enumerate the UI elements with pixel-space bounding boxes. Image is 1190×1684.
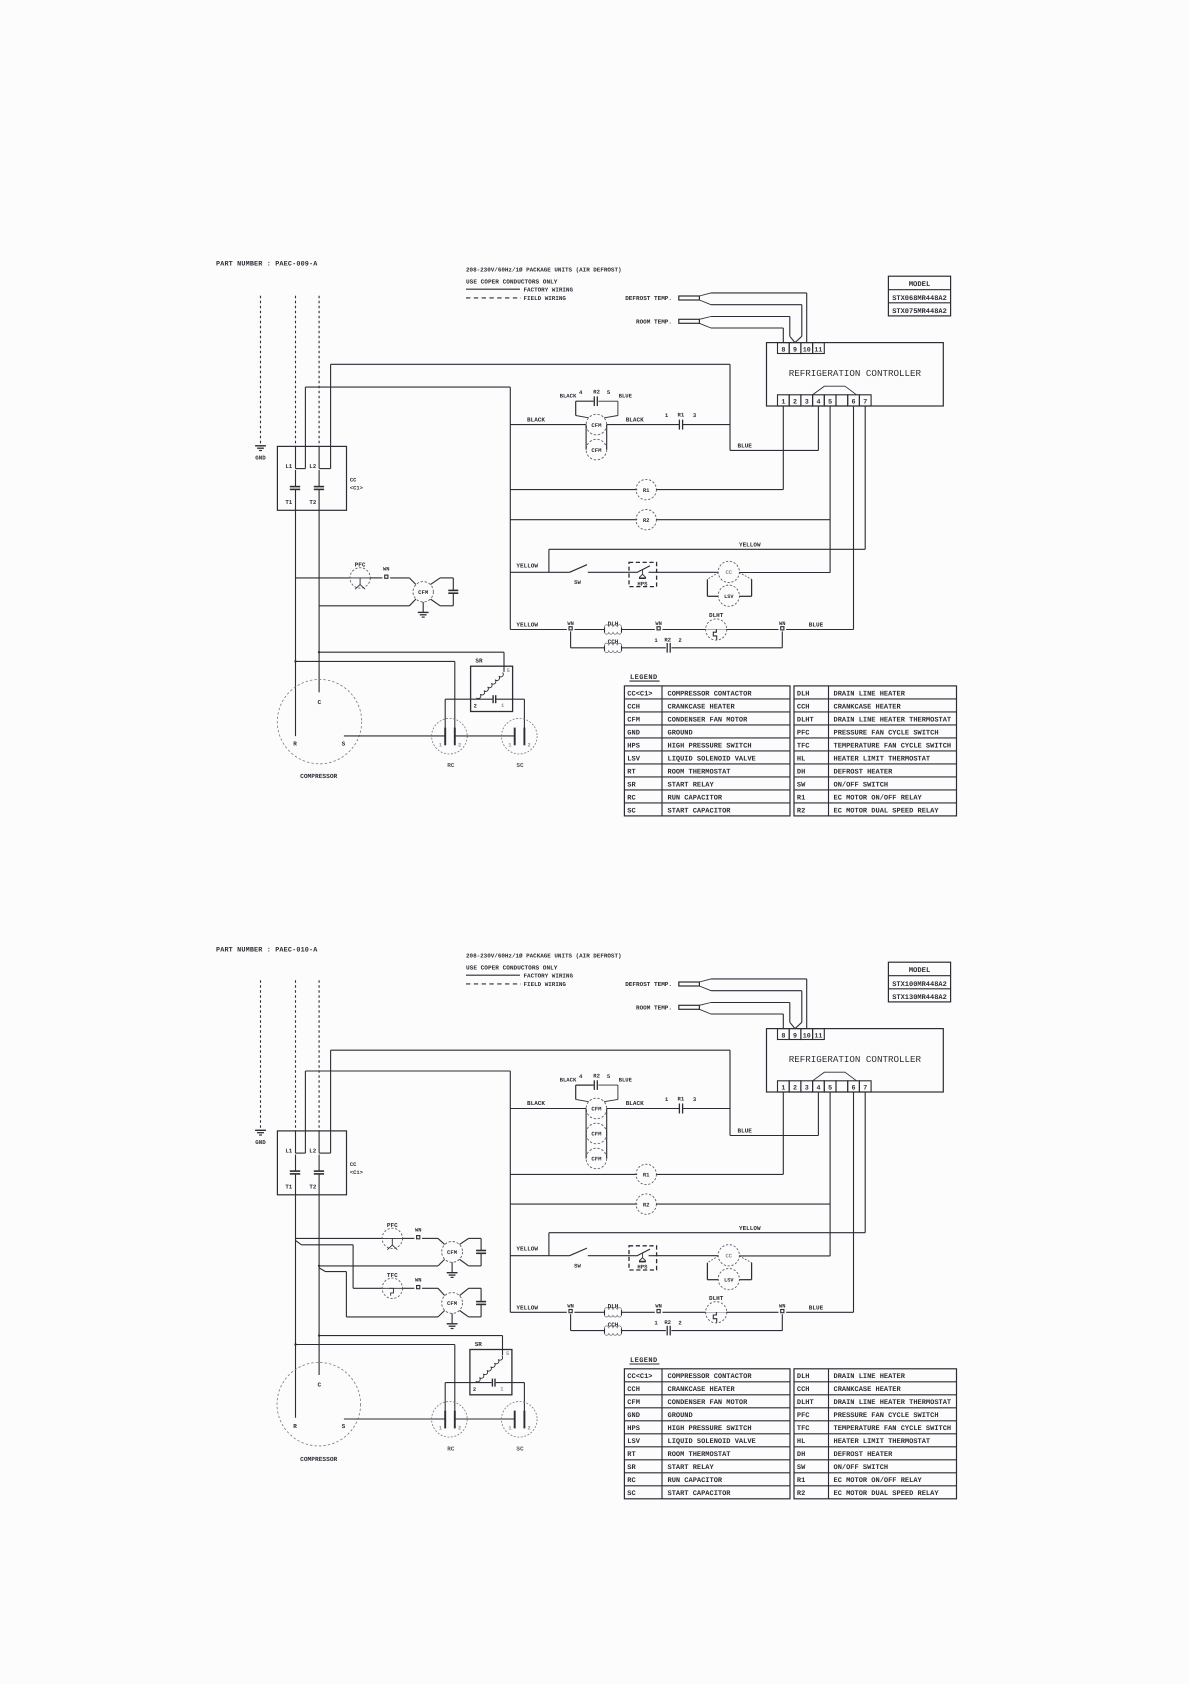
wire: contact R2 to WN3 branch [671, 1330, 782, 1332]
svg-text:USE COPER CONDUCTORS ONLY: USE COPER CONDUCTORS ONLY [466, 964, 558, 971]
run capacitor RC (2) [432, 1402, 468, 1438]
wire: CCH to contact R2 [622, 647, 666, 649]
svg-text:2: 2 [473, 1387, 476, 1393]
wire: controller terminal 1 drop to R1 [782, 406, 784, 490]
svg-text:WN: WN [779, 621, 785, 627]
wire: jog T2 to CFM2 lower row [319, 1268, 325, 1272]
svg-text:COMPRESSOR: COMPRESSOR [300, 773, 337, 780]
svg-text:START RELAY: START RELAY [668, 1464, 715, 1472]
svg-text:DRAIN LINE HEATER: DRAIN LINE HEATER [834, 690, 906, 698]
relay coil R2 (EC motor dual speed) [510, 1203, 637, 1205]
svg-text:CFM: CFM [591, 1156, 602, 1163]
wire: lower fan row from T2 [319, 605, 409, 607]
wire: room sensor to controller terminals 9/8 [699, 317, 711, 320]
svg-text:DLH: DLH [797, 1373, 810, 1381]
wire: WN1 branch down [570, 1314, 572, 1330]
contactor coil CC [718, 561, 739, 582]
svg-text:RC: RC [627, 794, 635, 802]
svg-text:BLUE: BLUE [619, 393, 633, 400]
svg-text:STX068MR448A2: STX068MR448A2 [892, 295, 947, 303]
wire: L2 top run [330, 364, 332, 468]
svg-text:R2: R2 [797, 1490, 805, 1498]
svg-text:R1: R1 [678, 1096, 685, 1103]
svg-text:9: 9 [793, 1032, 797, 1040]
wire: controller terminal 1 drop to R1 [782, 1092, 784, 1174]
svg-text:1: 1 [781, 1084, 785, 1092]
svg-text:R: R [293, 1423, 297, 1430]
relay coil R1 (EC motor on/off) [510, 1173, 637, 1175]
svg-text:1: 1 [500, 1386, 503, 1392]
svg-text:HPS: HPS [637, 580, 648, 587]
svg-text:MODEL: MODEL [909, 281, 931, 289]
wire: contact R1 to L2 drop [683, 424, 730, 426]
svg-text:T2: T2 [309, 1183, 316, 1190]
svg-text:ROOM THERMOSTAT: ROOM THERMOSTAT [668, 768, 731, 776]
svg-text:8: 8 [781, 346, 785, 354]
svg-text:TFC: TFC [797, 742, 810, 750]
svg-text:DEFROST TEMP.: DEFROST TEMP. [625, 981, 672, 988]
wire: T1 line down to compressor R (2) [295, 1174, 297, 1418]
svg-text:T2: T2 [309, 499, 316, 506]
condenser fan motor CFM 2 (2) [438, 1288, 445, 1295]
wire: L1 from contactor to bus [304, 387, 306, 469]
controller bottom terminals 1-7 [778, 395, 790, 406]
svg-text:R1: R1 [643, 1172, 650, 1179]
node WN (junction 2) [657, 627, 660, 630]
svg-text:DRAIN LINE HEATER THERMOSTAT: DRAIN LINE HEATER THERMOSTAT [834, 1399, 952, 1407]
condenser fan motors CFM stack [586, 1098, 607, 1119]
svg-text:SW: SW [797, 781, 806, 789]
field wiring feeder L1 (dashed) [295, 296, 297, 447]
svg-text:10: 10 [803, 346, 811, 354]
field wiring feeder L2 (dashed) [318, 296, 320, 447]
wire: defrost sensor to controller terminals 10/9 [699, 979, 711, 982]
svg-text:CONDENSER FAN MOTOR: CONDENSER FAN MOTOR [668, 716, 749, 724]
svg-text:MODEL: MODEL [909, 967, 931, 975]
svg-text:ROOM THERMOSTAT: ROOM THERMOSTAT [668, 1451, 731, 1459]
contactor contact L2-T2 [318, 446, 320, 468]
svg-text:3: 3 [805, 1084, 809, 1092]
svg-text:2: 2 [528, 1426, 531, 1432]
svg-text:BLUE: BLUE [809, 1305, 824, 1312]
svg-text:9: 9 [793, 346, 797, 354]
jumper hat over blank terminal [813, 386, 857, 395]
wire: T2 to start relay terminal 5 [319, 651, 504, 653]
svg-text:DLHT: DLHT [709, 1295, 724, 1302]
svg-text:R2: R2 [797, 807, 805, 815]
svg-text:GND: GND [255, 1139, 266, 1146]
svg-text:R2: R2 [593, 1073, 600, 1080]
wire: CC/LSV parallel brackets [707, 573, 718, 580]
high pressure switch HPS [629, 1246, 657, 1270]
svg-text:YELLOW: YELLOW [516, 562, 538, 569]
wire: WN2 to DLHT [662, 629, 705, 631]
svg-text:YELLOW: YELLOW [516, 1246, 538, 1253]
svg-text:DLH: DLH [797, 690, 810, 698]
svg-text:STX075MR448A2: STX075MR448A2 [892, 308, 947, 316]
svg-text:ON/OFF SWITCH: ON/OFF SWITCH [834, 1463, 889, 1472]
svg-text:HIGH PRESSURE SWITCH: HIGH PRESSURE SWITCH [668, 1425, 752, 1433]
compressor (2) [277, 1362, 361, 1446]
svg-text:DRAIN LINE HEATER THERMOSTAT: DRAIN LINE HEATER THERMOSTAT [834, 716, 952, 724]
svg-text:GROUND: GROUND [668, 729, 693, 737]
wire: WN to CFM [390, 577, 409, 579]
svg-text:DLHT: DLHT [797, 1399, 814, 1407]
svg-text:2: 2 [458, 743, 461, 749]
condenser fan motors CFM stack [586, 414, 607, 435]
svg-text:BLACK: BLACK [560, 393, 577, 400]
wire: WN to CFM (fan 1) [422, 1237, 438, 1239]
controller top terminals 8-11 [778, 1029, 790, 1040]
svg-text:PRESSURE FAN CYCLE SWITCH: PRESSURE FAN CYCLE SWITCH [834, 1412, 939, 1420]
wire: RC to SC (2) [455, 1418, 515, 1420]
wire: left control bus [509, 1071, 511, 1312]
svg-text:HPS: HPS [627, 1425, 640, 1433]
wire: T1 row to run capacitor [296, 660, 455, 662]
svg-text:GND: GND [255, 455, 266, 462]
legend: factory wiring sample line [466, 288, 520, 290]
svg-text:BLUE: BLUE [738, 1128, 753, 1135]
svg-text:BLUE: BLUE [738, 442, 753, 449]
svg-text:L1: L1 [285, 463, 292, 470]
wire: T2 to start relay terminal 5 (2) [319, 1335, 502, 1337]
svg-text:208-230V/60Hz/1Ø PACKAGE UNITS: 208-230V/60Hz/1Ø PACKAGE UNITS (AIR DEFR… [466, 953, 622, 960]
svg-text:YELLOW: YELLOW [516, 622, 538, 629]
svg-text:CFM: CFM [447, 1249, 458, 1256]
svg-text:LIQUID SOLENOID VALVE: LIQUID SOLENOID VALVE [668, 1438, 756, 1446]
svg-text:CFM: CFM [627, 716, 640, 724]
svg-text:R2: R2 [643, 517, 650, 524]
svg-text:REFRIGERATION CONTROLLER: REFRIGERATION CONTROLLER [789, 368, 922, 379]
field wiring ground feeder (dashed) [260, 980, 262, 1128]
svg-text:CFM: CFM [627, 1399, 640, 1407]
svg-text:COMPRESSOR CONTACTOR: COMPRESSOR CONTACTOR [668, 690, 753, 698]
legend: factory wiring sample line [466, 974, 520, 976]
svg-text:FIELD WIRING: FIELD WIRING [524, 981, 567, 988]
svg-text:BLACK: BLACK [527, 416, 545, 423]
model table [888, 962, 950, 1002]
svg-text:L1: L1 [285, 1148, 292, 1155]
svg-text:<C1>: <C1> [350, 485, 363, 491]
svg-text:BLACK: BLACK [626, 1100, 644, 1107]
ground GND [255, 1129, 266, 1131]
svg-text:SR: SR [475, 658, 483, 665]
svg-text:RUN CAPACITOR: RUN CAPACITOR [668, 1477, 723, 1485]
svg-text:EC MOTOR ON/OFF RELAY: EC MOTOR ON/OFF RELAY [834, 1476, 923, 1485]
wire: SR-1 to SC (2) [523, 1383, 525, 1411]
wire: WN to DLH [574, 629, 604, 631]
svg-text:STX130MR448A2: STX130MR448A2 [892, 994, 947, 1002]
svg-text:PRESSURE FAN CYCLE SWITCH: PRESSURE FAN CYCLE SWITCH [834, 729, 939, 737]
svg-text:RUN CAPACITOR: RUN CAPACITOR [668, 794, 723, 802]
high pressure switch HPS [629, 562, 657, 586]
svg-text:S: S [342, 1423, 346, 1430]
svg-text:CFM: CFM [591, 1131, 602, 1138]
relay coil R1 (EC motor on/off) [510, 489, 637, 491]
svg-text:R1: R1 [678, 412, 685, 419]
contactor contact L2-T2 [318, 1131, 320, 1153]
svg-text:SR: SR [627, 1464, 636, 1472]
svg-text:CCH: CCH [797, 703, 810, 711]
svg-text:EC MOTOR DUAL SPEED RELAY: EC MOTOR DUAL SPEED RELAY [834, 807, 940, 815]
svg-text:COMPRESSOR: COMPRESSOR [300, 1456, 337, 1463]
node WN (junction 1) [569, 1310, 572, 1313]
svg-text:CFM: CFM [447, 1300, 458, 1307]
wire: T1 row to run capacitor (2) [296, 1344, 455, 1346]
contactor coil CC [718, 1245, 739, 1266]
svg-text:PFC: PFC [797, 729, 810, 737]
legend: field wiring sample dashed line [466, 983, 521, 985]
svg-text:HPS: HPS [627, 742, 640, 750]
refrigeration controller U1 [767, 1029, 944, 1092]
svg-text:COMPRESSOR CONTACTOR: COMPRESSOR CONTACTOR [668, 1373, 753, 1381]
svg-text:2: 2 [458, 1426, 461, 1432]
wire: compressor S to run capacitor RC (2) [344, 1418, 445, 1420]
wire: RC to SC [455, 735, 515, 737]
wire: DLHT to WN3 [726, 629, 778, 631]
legend table left [624, 686, 790, 816]
svg-text:DH: DH [797, 768, 805, 776]
svg-text:TFC: TFC [797, 1425, 810, 1433]
svg-text:5: 5 [506, 1351, 509, 1357]
node WN (fan 1) [403, 1237, 415, 1239]
svg-text:START CAPACITOR: START CAPACITOR [668, 1490, 732, 1498]
svg-text:BLUE: BLUE [619, 1077, 633, 1084]
wire: defrost sensor to controller terminals 10/9 [699, 293, 711, 296]
compressor [277, 679, 361, 763]
wire: T2 line down to compressor C [318, 489, 320, 692]
wire: controller terminal 6 drop [853, 1092, 855, 1312]
svg-text:FACTORY WIRING: FACTORY WIRING [524, 972, 574, 979]
svg-text:R2: R2 [643, 1201, 650, 1208]
svg-text:REFRIGERATION CONTROLLER: REFRIGERATION CONTROLLER [789, 1054, 922, 1065]
svg-text:C: C [317, 1382, 321, 1389]
svg-text:PFC: PFC [797, 1412, 810, 1420]
wire: compressor S to run capacitor RC [344, 735, 445, 737]
svg-text:SC: SC [516, 1445, 524, 1452]
ground GND [255, 445, 266, 447]
wire: controller terminal 5 drop [829, 406, 831, 573]
wire: T2 line down to compressor C (2) [318, 1174, 320, 1375]
svg-text:2: 2 [793, 1084, 797, 1092]
run capacitor RC [432, 718, 468, 754]
legend table left [624, 1369, 790, 1499]
node WN (junction 1) [569, 627, 572, 630]
svg-text:LSV: LSV [627, 755, 640, 763]
svg-text:CC: CC [725, 569, 732, 576]
svg-text:1: 1 [508, 743, 511, 749]
svg-text:WN: WN [779, 1304, 785, 1310]
legend table right [794, 686, 957, 816]
wire: L1 from contactor to bus [304, 1071, 306, 1153]
start relay contact [445, 698, 492, 700]
svg-text:START RELAY: START RELAY [668, 781, 715, 789]
svg-text:3: 3 [805, 398, 809, 406]
svg-text:CC: CC [350, 478, 357, 484]
svg-text:CC<C1>: CC<C1> [627, 690, 652, 698]
wire: SR-2 to RC (2) [444, 1383, 446, 1411]
svg-text:R1: R1 [797, 1477, 805, 1485]
svg-text:1: 1 [439, 1426, 442, 1432]
start capacitor SC [502, 718, 538, 754]
svg-text:CFM: CFM [418, 589, 429, 596]
wire: CCH to contact R2 [622, 1330, 666, 1332]
svg-text:11: 11 [814, 346, 822, 354]
contactor contact L1-T1 [295, 1131, 297, 1153]
svg-text:R1: R1 [797, 794, 805, 802]
svg-text:HL: HL [797, 755, 805, 763]
svg-text:YELLOW: YELLOW [739, 1225, 761, 1232]
wire: fan feed row 1 from T1 [296, 1237, 382, 1239]
node WN (junction 3) [781, 627, 784, 630]
svg-text:HIGH PRESSURE SWITCH: HIGH PRESSURE SWITCH [668, 742, 752, 750]
svg-text:WN: WN [567, 1304, 573, 1310]
jumper hat over blank terminal [813, 1072, 857, 1081]
field wiring feeder L2 (dashed) [318, 980, 320, 1131]
wire: WN to CFM (fan 2) [422, 1287, 438, 1289]
svg-text:1: 1 [781, 398, 785, 406]
wire: SR-1 to SC [523, 699, 525, 728]
condenser fan motor CFM 1 (2) [438, 1238, 445, 1244]
svg-text:2: 2 [474, 704, 477, 710]
node WN (junction 3) [781, 1310, 784, 1313]
switch SW (on/off) [570, 565, 588, 573]
svg-text:CC<C1>: CC<C1> [627, 1373, 652, 1381]
svg-text:RC: RC [627, 1477, 635, 1485]
svg-text:DEFROST TEMP.: DEFROST TEMP. [625, 295, 672, 302]
svg-text:WN: WN [567, 621, 573, 627]
svg-text:SR: SR [475, 1341, 483, 1348]
svg-text:SC: SC [516, 762, 524, 769]
model table [888, 276, 950, 316]
svg-text:RT: RT [627, 1451, 635, 1459]
wire: lower fan row 1 from T2 [319, 1265, 438, 1267]
svg-text:7: 7 [863, 398, 867, 406]
svg-text:2: 2 [528, 743, 531, 749]
svg-text:WN: WN [655, 1304, 661, 1310]
svg-text:5: 5 [828, 1084, 832, 1092]
svg-text:SW: SW [797, 1464, 806, 1472]
svg-text:GND: GND [627, 1412, 640, 1420]
svg-text:R2: R2 [593, 389, 600, 396]
svg-text:CONDENSER FAN MOTOR: CONDENSER FAN MOTOR [668, 1399, 749, 1407]
svg-text:CCH: CCH [627, 703, 640, 711]
svg-text:WN: WN [655, 621, 661, 627]
compressor contactor CC box [277, 1131, 346, 1195]
svg-text:R2: R2 [664, 636, 671, 643]
wire: L2 top run [330, 1050, 332, 1153]
svg-text:USE COPER CONDUCTORS ONLY: USE COPER CONDUCTORS ONLY [466, 278, 558, 285]
field wiring ground feeder (dashed) [260, 296, 262, 444]
svg-text:HEATER LIMIT THERMOSTAT: HEATER LIMIT THERMOSTAT [834, 755, 931, 763]
svg-text:BLUE: BLUE [809, 622, 824, 629]
wire: contact R2 to WN3 branch [671, 647, 782, 649]
svg-text:CCH: CCH [627, 1386, 640, 1394]
svg-text:START CAPACITOR: START CAPACITOR [668, 807, 732, 815]
svg-text:RC: RC [447, 1445, 455, 1452]
start relay contact (2) [445, 1382, 492, 1384]
svg-text:FACTORY WIRING: FACTORY WIRING [524, 286, 574, 293]
svg-text:CFM: CFM [591, 422, 602, 429]
node WN (fan 2) [403, 1287, 415, 1289]
svg-text:TEMPERATURE FAN CYCLE SWITCH: TEMPERATURE FAN CYCLE SWITCH [834, 1425, 952, 1433]
svg-text:R1: R1 [643, 487, 650, 494]
wire: controller terminal 5 drop [829, 1092, 831, 1256]
svg-text:DEFROST HEATER: DEFROST HEATER [834, 1451, 894, 1459]
svg-text:YELLOW: YELLOW [739, 542, 761, 549]
svg-text:CC: CC [725, 1253, 732, 1260]
wire: WN to DLH [574, 1311, 604, 1313]
svg-text:BLACK: BLACK [626, 416, 644, 423]
svg-text:2: 2 [793, 398, 797, 406]
svg-text:C: C [317, 699, 321, 706]
svg-text:CRANKCASE HEATER: CRANKCASE HEATER [834, 1386, 902, 1394]
svg-text:HPS: HPS [637, 1264, 648, 1271]
svg-text:DRAIN LINE HEATER: DRAIN LINE HEATER [834, 1373, 906, 1381]
svg-text:WN: WN [415, 1278, 421, 1284]
svg-text:LSV: LSV [627, 1438, 640, 1446]
svg-text:TEMPERATURE FAN CYCLE SWITCH: TEMPERATURE FAN CYCLE SWITCH [834, 742, 952, 750]
svg-text:T1: T1 [285, 499, 292, 506]
svg-text:L2: L2 [309, 1148, 316, 1155]
svg-text:SW: SW [574, 579, 581, 586]
svg-text:SC: SC [627, 807, 635, 815]
relay coil R2 (EC motor dual speed) [510, 519, 637, 521]
svg-text:CFM: CFM [591, 447, 602, 454]
legend: field wiring sample dashed line [466, 297, 521, 299]
svg-text:DLHT: DLHT [709, 612, 724, 619]
svg-text:6: 6 [852, 1084, 856, 1092]
svg-text:RT: RT [627, 768, 635, 776]
wire: controller terminal 6 drop [853, 406, 855, 630]
svg-text:DH: DH [797, 1451, 805, 1459]
field wiring feeder L1 (dashed) [295, 980, 297, 1131]
svg-text:1: 1 [508, 1426, 511, 1432]
node WN (fan) [371, 577, 383, 579]
svg-text:8: 8 [781, 1032, 785, 1040]
svg-text:PART NUMBER : PAEC-010-A: PART NUMBER : PAEC-010-A [216, 946, 318, 954]
svg-text:RC: RC [447, 762, 455, 769]
liquid solenoid valve LSV [718, 585, 739, 606]
svg-text:LIQUID SOLENOID VALVE: LIQUID SOLENOID VALVE [668, 755, 756, 763]
svg-text:GND: GND [627, 729, 640, 737]
svg-text:6: 6 [852, 398, 856, 406]
svg-text:5: 5 [507, 668, 510, 674]
svg-text:YELLOW: YELLOW [516, 1305, 538, 1312]
controller bottom terminals 1-7 [778, 1081, 790, 1092]
controller top terminals 8-11 [778, 343, 790, 354]
svg-text:ON/OFF SWITCH: ON/OFF SWITCH [834, 780, 889, 789]
svg-text:WN: WN [383, 567, 389, 573]
compressor contactor CC box [277, 446, 346, 510]
svg-text:FIELD WIRING: FIELD WIRING [524, 295, 567, 302]
start capacitor SC (2) [502, 1402, 538, 1438]
svg-text:5: 5 [828, 398, 832, 406]
svg-text:GROUND: GROUND [668, 1412, 693, 1420]
svg-text:T1: T1 [285, 1183, 292, 1190]
svg-text:DLHT: DLHT [797, 716, 814, 724]
svg-text:SC: SC [627, 1490, 635, 1498]
svg-text:R2: R2 [664, 1319, 671, 1326]
svg-text:4: 4 [816, 398, 820, 406]
wire: CC/LSV parallel brackets [707, 1256, 718, 1263]
svg-text:R: R [293, 740, 297, 747]
svg-text:SR: SR [627, 781, 636, 789]
wire: left control bus [509, 387, 511, 629]
svg-text:EC MOTOR ON/OFF RELAY: EC MOTOR ON/OFF RELAY [834, 793, 923, 802]
svg-text:BLACK: BLACK [560, 1077, 577, 1084]
svg-text:STX100MR448A2: STX100MR448A2 [892, 981, 947, 989]
